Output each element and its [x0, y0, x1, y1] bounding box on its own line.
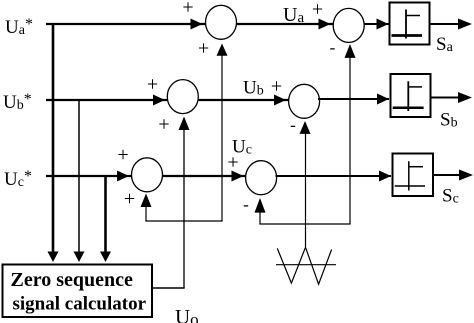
arrowhead Ua* drop into calculator	[48, 252, 59, 263]
svg-text:Uo: Uo	[175, 305, 199, 323]
svg-text:Sc: Sc	[442, 186, 459, 207]
svg-text:+: +	[198, 38, 209, 60]
wire B1 to B2	[198, 99, 288, 101]
arrowhead zero-sequence into A1 bottom	[217, 44, 228, 56]
svg-text:Ub*: Ub*	[3, 91, 32, 113]
wire carrier horizontal bus	[259, 223, 350, 225]
arrowhead carrier into C2 bottom	[255, 198, 266, 213]
wire drop from Ua* to calculator	[52, 24, 55, 252]
arrowhead output Sc	[459, 170, 473, 181]
svg-text:Ub: Ub	[243, 78, 264, 99]
svg-text:+: +	[227, 152, 238, 174]
summing junction A2	[333, 8, 364, 42]
arrowhead into comparator A	[377, 19, 389, 30]
arrowhead into comparator C	[379, 171, 391, 182]
wire drop from Ub* to calculator	[78, 100, 80, 252]
comparator C step symbol	[395, 161, 425, 190]
wire calculator output U0	[153, 287, 185, 289]
arrowhead into summing junction C2	[232, 171, 244, 182]
triangle carrier axis line	[276, 264, 336, 266]
arrowhead carrier into A2 bottom	[345, 44, 356, 58]
wire C2 to comparator C	[276, 175, 392, 177]
svg-text:-: -	[330, 38, 336, 57]
svg-text:Sa: Sa	[436, 34, 454, 55]
arrowhead into summing junction B1	[153, 95, 165, 106]
arrowhead carrier into B2 bottom	[300, 121, 311, 134]
comparator B step symbol	[393, 81, 424, 111]
svg-text:Ua: Ua	[283, 4, 304, 26]
wire A2 to comparator A	[364, 23, 388, 25]
svg-text:+: +	[158, 114, 169, 136]
svg-text:+: +	[312, 0, 323, 21]
wire comparator C output	[434, 174, 461, 176]
svg-text:-: -	[290, 116, 296, 135]
arrowhead output Sa	[458, 19, 472, 30]
svg-text:-: -	[243, 195, 249, 214]
arrowhead Ub* drop into calculator	[74, 252, 85, 263]
arrowhead into summing junction C1	[117, 171, 129, 182]
wire Uc* input (row C horizontal)	[46, 175, 132, 177]
wire Ua* input (row A horizontal)	[46, 23, 206, 25]
arrowhead into summing junction A2	[319, 19, 331, 30]
comparator block C	[393, 154, 434, 197]
svg-text:+: +	[124, 188, 135, 210]
summing junction C2	[246, 161, 277, 195]
wire C1 to C2	[163, 175, 247, 177]
svg-text:Uc*: Uc*	[4, 168, 32, 190]
triangle carrier waveform	[277, 247, 331, 284]
svg-text:+: +	[182, 0, 193, 19]
arrowhead output Sb	[458, 92, 472, 103]
arrowhead zero-sequence into C1 bottom	[141, 194, 152, 208]
wire comparator A output	[431, 23, 461, 25]
arrowhead zero-sequence into B1 bottom	[179, 117, 190, 131]
comparator A step symbol	[392, 10, 423, 39]
svg-text:+: +	[271, 76, 282, 98]
wire carrier riser from triangle generator to B2	[305, 123, 307, 247]
svg-text:Ua*: Ua*	[5, 16, 33, 38]
wire drop from Uc* to calculator	[104, 176, 107, 252]
wire zero-sequence horizontal bus	[145, 220, 222, 222]
comparator block A	[390, 3, 430, 45]
wire A1 to A2	[237, 23, 334, 25]
svg-text:signal calculator: signal calculator	[13, 294, 147, 315]
wire zero-sequence riser to A1	[221, 45, 223, 221]
wire Ub* input (row B horizontal)	[46, 99, 168, 101]
wire B2 to comparator B	[318, 98, 389, 100]
arrowhead into summing junction B2	[274, 95, 286, 106]
comparator block B	[391, 74, 431, 117]
arrowhead into comparator B	[377, 94, 389, 105]
svg-text:+: +	[147, 74, 158, 96]
svg-text:Zero sequence: Zero sequence	[11, 269, 134, 291]
summing junction A1	[206, 5, 237, 39]
zero sequence signal calculator box	[3, 265, 153, 318]
arrowhead into summing junction A1	[191, 19, 203, 30]
summing junction B1	[167, 80, 198, 114]
summing junction B2	[289, 84, 320, 118]
wire carrier riser to A2	[349, 47, 351, 224]
wire zero-sequence riser to C1	[145, 196, 147, 221]
wire carrier riser to C2	[259, 200, 261, 224]
svg-text:+: +	[117, 144, 128, 166]
svg-text:Sb: Sb	[440, 110, 458, 131]
wire comparator B output	[432, 97, 461, 99]
summing junction C1	[132, 158, 163, 192]
wire zero-sequence riser to B1	[183, 119, 185, 288]
arrowhead Uc* drop into calculator	[100, 252, 111, 263]
